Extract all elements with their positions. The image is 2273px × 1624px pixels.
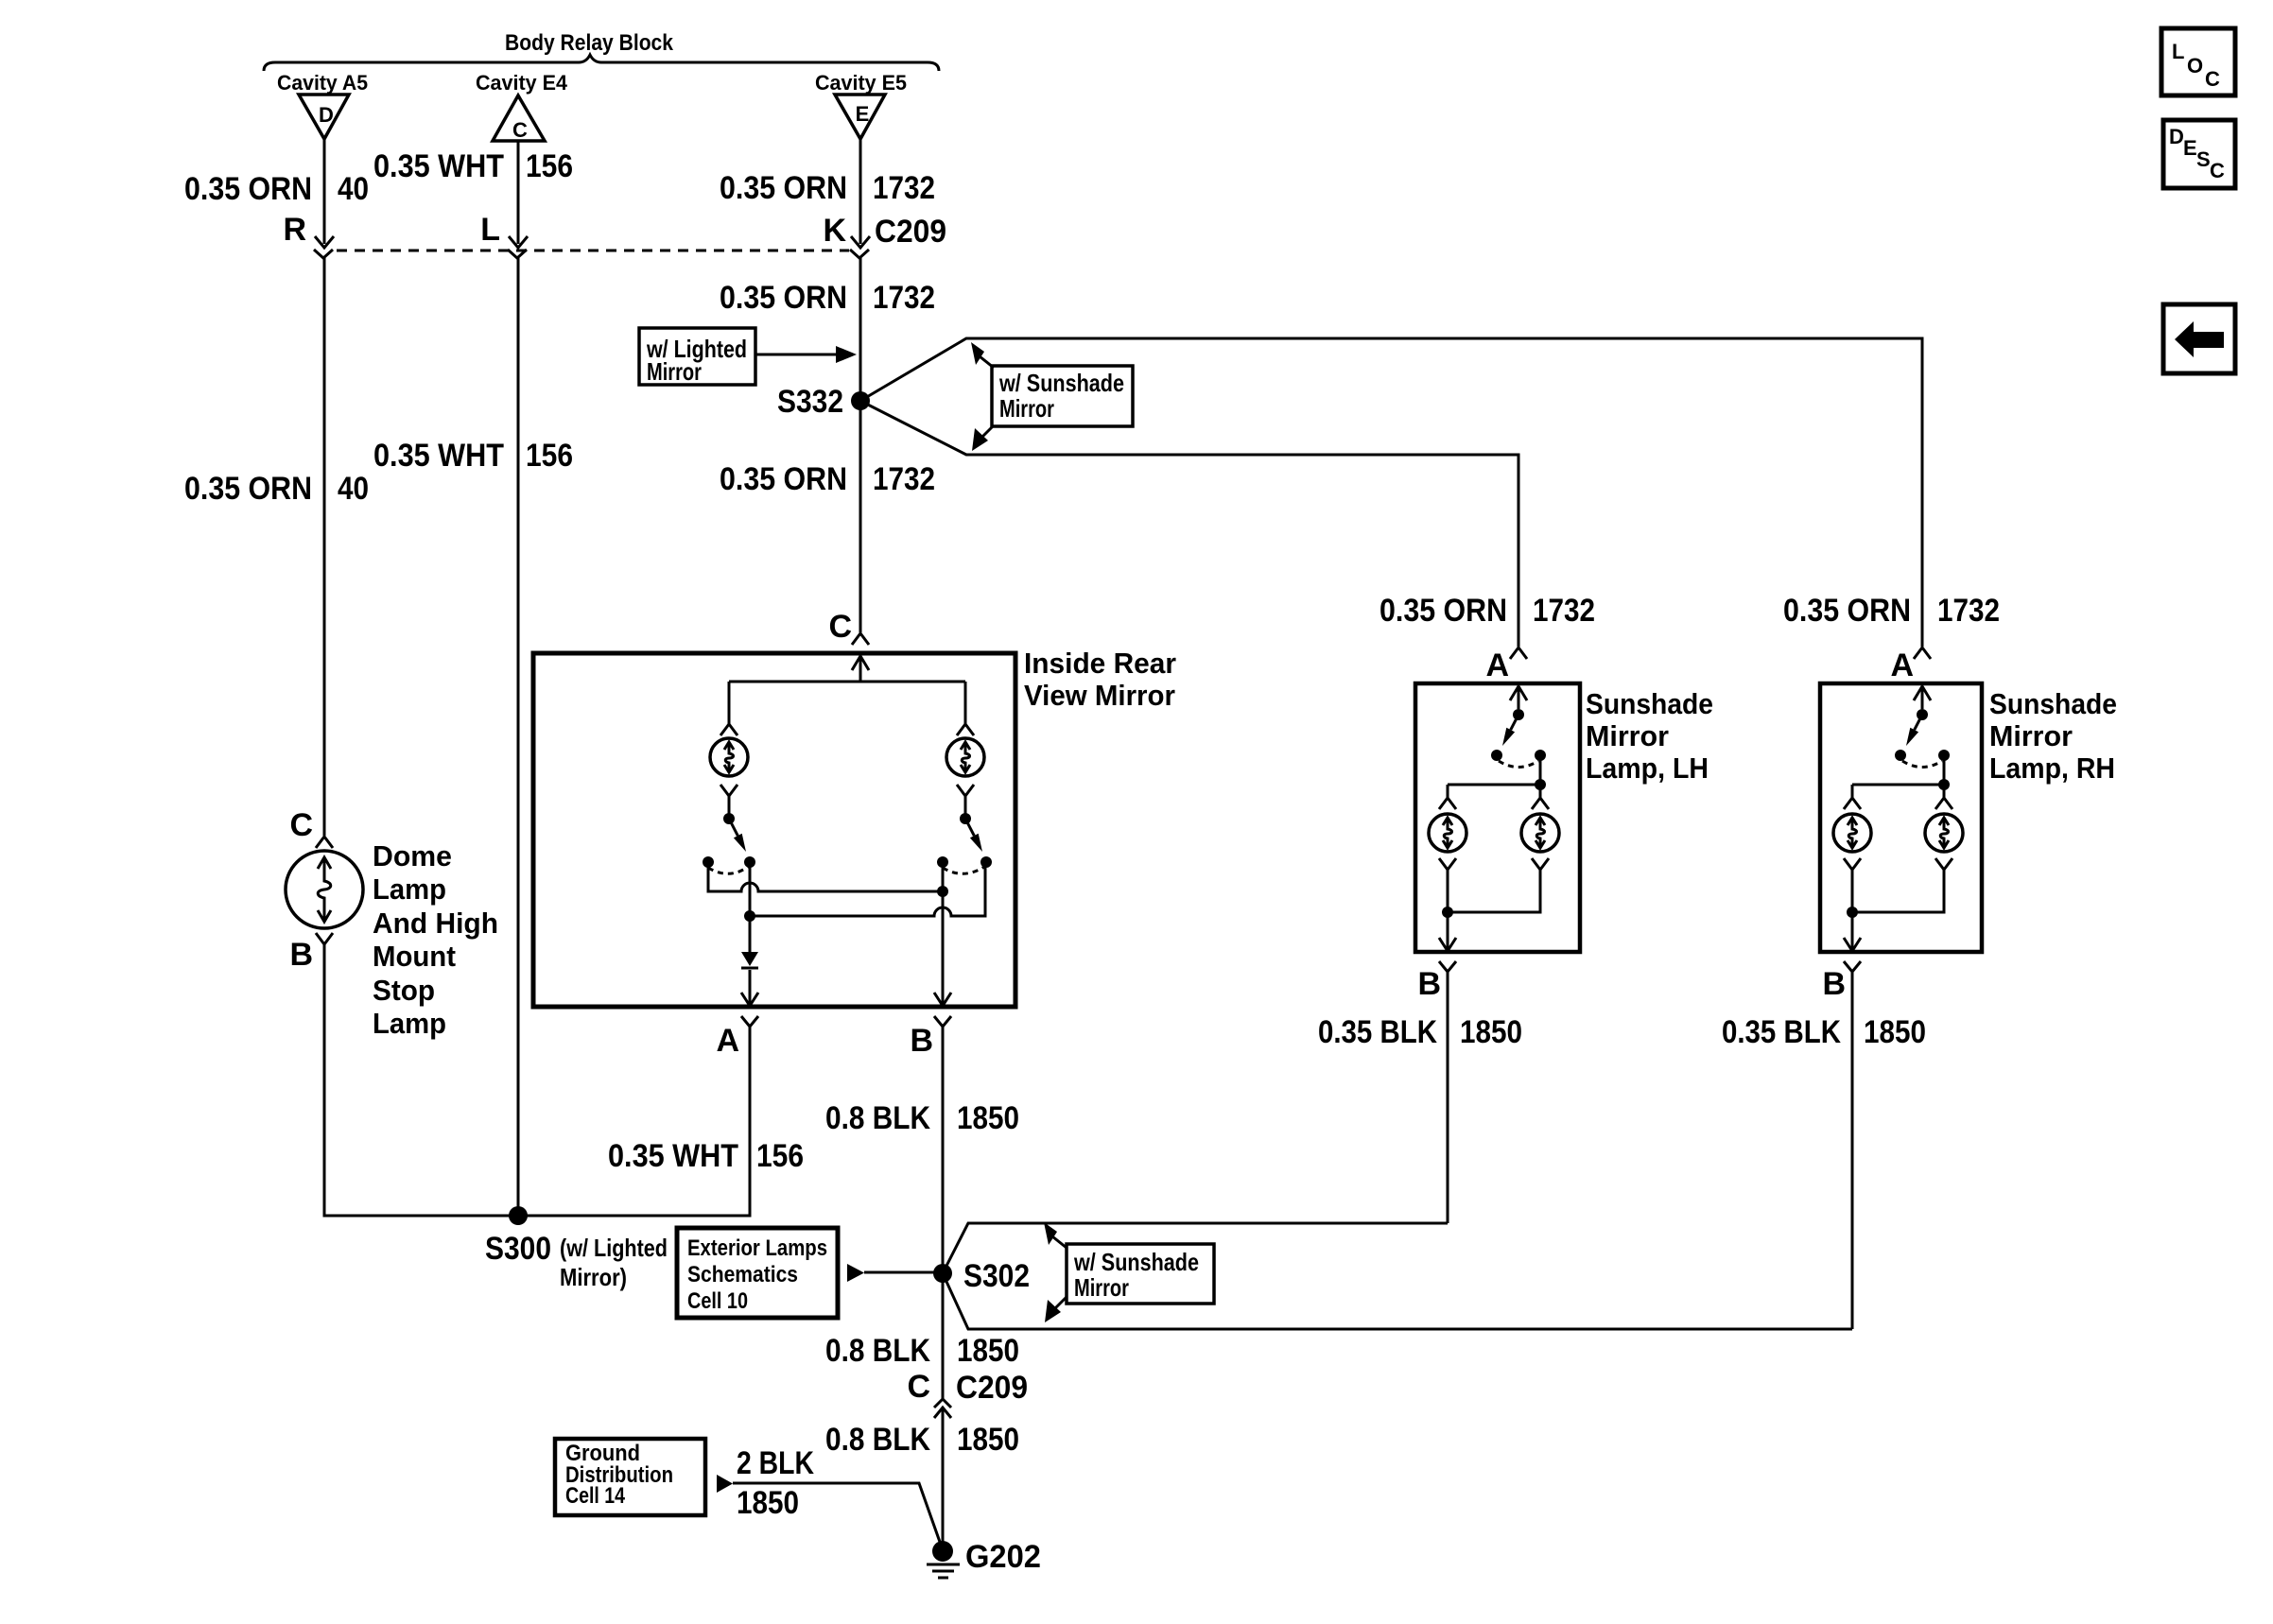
splice S302 junction dot (933, 1264, 952, 1283)
svg-text:1732: 1732 (873, 461, 935, 497)
Body Relay Block brace (264, 55, 939, 71)
dome lamp top connector chevron (316, 837, 333, 848)
w/ Sunshade Mirror callout box (top) (992, 366, 1133, 426)
mirror right bulb (946, 738, 984, 776)
mirror right switch contacts (937, 856, 948, 868)
RH lamp pin B arrow (1844, 938, 1861, 951)
S332 fork upper diagonal (860, 338, 1922, 647)
mirror right switch dashed arc (943, 867, 984, 873)
wire W3 from S332 down to mirror pin C (859, 401, 862, 632)
svg-text:C: C (2210, 159, 2225, 182)
mirror left switch dashed arc (708, 867, 748, 873)
svg-text:S302: S302 (963, 1258, 1030, 1294)
RH lamp rail junction dot (1938, 779, 1950, 790)
RH lamp rail from right contact (1852, 755, 1944, 785)
arrow into C209 at L (509, 236, 528, 248)
back arrow legend box (2163, 304, 2235, 373)
wire W1 from C209 down to dome lamp C (323, 267, 326, 836)
RH lamp left bulb lower connector (1844, 858, 1861, 886)
wire from dome lamp B down to S300 bus (324, 944, 508, 1216)
svg-text:Body Relay Block: Body Relay Block (505, 30, 674, 56)
svg-text:0.35 ORN: 0.35 ORN (720, 280, 847, 316)
svg-text:View Mirror: View Mirror (1024, 679, 1175, 712)
svg-text:0.8 BLK: 0.8 BLK (825, 1422, 930, 1458)
Sunshade Mirror Lamp RH box (1820, 683, 1982, 952)
w/ Lighted Mirror callout box (639, 328, 755, 386)
svg-text:2 BLK: 2 BLK (737, 1445, 814, 1481)
LH lamp pin A arrow (1510, 686, 1527, 709)
svg-text:G202: G202 (965, 1539, 1041, 1575)
svg-text:0.35 ORN: 0.35 ORN (720, 461, 847, 497)
RH lamp switch contacts (1895, 750, 1906, 761)
wire from triangle E down to C209 (859, 139, 862, 244)
RH lamp switch dashed arc (1902, 761, 1942, 768)
svg-text:Dome: Dome (373, 839, 452, 872)
LH lamp rail junction dot (1535, 779, 1546, 790)
svg-text:(w/ Lighted: (w/ Lighted (560, 1234, 668, 1262)
svg-text:Cavity E5: Cavity E5 (815, 71, 907, 95)
svg-text:0.35 ORN: 0.35 ORN (1783, 593, 1911, 629)
LH lamp left bulb drop (1439, 785, 1456, 809)
svg-text:0.35 ORN: 0.35 ORN (184, 171, 312, 207)
svg-text:S332: S332 (777, 384, 843, 420)
svg-text:Inside Rear: Inside Rear (1024, 647, 1176, 680)
LH lamp rail from right contact (1448, 755, 1540, 785)
LH lamp switch contacts (1491, 750, 1502, 761)
svg-text:w/ Sunshade: w/ Sunshade (1073, 1248, 1199, 1276)
mirror left switch pivot (723, 813, 735, 824)
C209 lower connector chevrons (934, 1399, 951, 1408)
svg-text:156: 156 (526, 438, 573, 474)
S302 fork lower branch to RH lamp (943, 1273, 1852, 1329)
Inside Rear View Mirror box (533, 653, 1015, 1007)
connector chevron below C209 at L (508, 250, 527, 267)
splice S332 junction dot (851, 391, 870, 410)
mirror right switch pivot (960, 813, 971, 824)
RH lamp pin A connector chevron (1914, 648, 1931, 659)
Inside Rear View Mirror label (1024, 647, 1176, 712)
svg-text:C: C (512, 118, 528, 142)
LH lamp switch pivot (1513, 709, 1524, 720)
Sunshade Mirror Lamp RH label (1989, 687, 2117, 785)
S332 fork lower diagonal (860, 401, 1518, 647)
wire from mirror pin A down to S300 bus (508, 1027, 750, 1216)
svg-text:Sunshade: Sunshade (1989, 687, 2117, 720)
svg-text:Mirror): Mirror) (560, 1263, 627, 1291)
mirror pin A connector chevron (741, 1016, 758, 1037)
RH lamp right bulb (1925, 814, 1963, 852)
Ground Distribution Cell 14 box (555, 1439, 705, 1515)
svg-text:Lamp: Lamp (373, 1007, 446, 1040)
svg-text:B: B (1822, 966, 1846, 1002)
svg-text:Mirror: Mirror (1989, 719, 2073, 752)
RH lamp switch pivot (1917, 709, 1928, 720)
LH lamp right bulb (1521, 814, 1559, 852)
svg-text:Mirror: Mirror (999, 394, 1054, 423)
mirror pin C connector chevron (852, 633, 869, 645)
svg-text:B: B (289, 937, 313, 973)
svg-text:Cavity E4: Cavity E4 (476, 71, 568, 95)
svg-text:Mirror: Mirror (647, 357, 702, 386)
LH lamp pin A connector chevron (1510, 648, 1527, 659)
svg-text:0.8 BLK: 0.8 BLK (825, 1333, 930, 1369)
svg-text:B: B (1417, 966, 1441, 1002)
svg-text:S: S (2196, 147, 2211, 171)
mirror right bulb lower connector (957, 785, 974, 814)
svg-text:Sunshade: Sunshade (1586, 687, 1713, 720)
mirror diode (741, 952, 758, 966)
mirror wire from left-right contact down through diode (749, 862, 752, 1005)
svg-text:C209: C209 (875, 214, 946, 250)
RH lamp right bulb lower connector (1935, 858, 1952, 886)
svg-text:1732: 1732 (873, 280, 935, 316)
LOC legend box (2161, 28, 2235, 95)
RH lamp B wire down to S302 branch (1851, 972, 1854, 1329)
svg-text:1732: 1732 (873, 170, 935, 206)
svg-text:Lamp, RH: Lamp, RH (1989, 752, 2115, 785)
svg-text:D: D (2169, 125, 2184, 148)
Sunshade Mirror Lamp LH box (1415, 683, 1580, 952)
svg-text:1850: 1850 (1460, 1014, 1522, 1050)
connector triangle C (Cavity E4) (493, 95, 545, 142)
wire from triangle C down to C209 (517, 141, 520, 244)
connector triangle E (Cavity E5) (835, 95, 885, 139)
svg-text:0.8 BLK: 0.8 BLK (825, 1100, 930, 1136)
svg-text:C: C (828, 609, 852, 645)
S300 note (w/ Lighted Mirror) (560, 1234, 668, 1291)
wire from mirror pin B down to S302 (942, 1027, 945, 1399)
wire W2 from C209 down to S300 (517, 267, 520, 1216)
svg-text:Stop: Stop (373, 974, 435, 1007)
svg-text:D: D (319, 103, 334, 127)
RH lamp exit wire to pin B (1851, 912, 1854, 950)
dome lamp name label (373, 839, 498, 1040)
RH lamp bottom rail (1852, 886, 1944, 912)
RH lamp switch arm (1915, 715, 1922, 730)
svg-text:Mirror: Mirror (1074, 1273, 1129, 1302)
LH lamp pin B connector chevron (1439, 961, 1456, 982)
svg-text:1732: 1732 (1937, 593, 2000, 629)
svg-text:0.35 ORN: 0.35 ORN (1379, 593, 1507, 629)
svg-text:And High: And High (373, 907, 498, 940)
mirror right bulb drop (957, 682, 974, 735)
svg-text:0.35 BLK: 0.35 BLK (1722, 1014, 1841, 1050)
svg-text:1850: 1850 (737, 1485, 799, 1521)
LH lamp switch dashed arc (1499, 761, 1538, 768)
LH lamp exit wire to pin B (1447, 912, 1449, 950)
RH lamp pin A arrow (1914, 686, 1931, 709)
svg-text:156: 156 (526, 148, 573, 184)
mirror rail2 from x793 to right contact (750, 862, 985, 916)
svg-text:0.35 WHT: 0.35 WHT (373, 438, 504, 474)
LH lamp bottom junction dot (1442, 907, 1453, 918)
arrow into C209 at K (851, 236, 870, 248)
w/ Sunshade Mirror callout arrows (bottom) (1044, 1222, 1057, 1245)
connector chevron below C209 at R (314, 250, 333, 267)
svg-text:Lamp: Lamp (373, 872, 446, 906)
LH lamp left bulb (1429, 814, 1466, 852)
mirror rail1 from left contact to B wire (708, 862, 943, 891)
mirror pin B connector chevron (934, 1016, 951, 1037)
svg-text:C: C (289, 807, 313, 843)
LH lamp pin B arrow (1439, 938, 1456, 951)
RH lamp left bulb (1833, 814, 1871, 852)
svg-text:1850: 1850 (957, 1333, 1019, 1369)
C209 dashed connector line (337, 250, 849, 252)
Sunshade Mirror Lamp LH label (1586, 687, 1713, 785)
dome lamp filament (318, 857, 331, 922)
dome lamp pin B connector chevron (316, 933, 333, 954)
svg-text:w/ Sunshade: w/ Sunshade (998, 369, 1124, 397)
RH lamp left bulb drop (1844, 785, 1861, 809)
LH lamp right bulb drop (1532, 785, 1549, 809)
svg-text:Mount: Mount (373, 940, 456, 973)
LH lamp B wire down to S302 branch (1447, 972, 1449, 1223)
svg-text:Cavity A5: Cavity A5 (277, 71, 368, 95)
ground G202 symbol bars (927, 1564, 960, 1578)
mirror left switch arm (729, 819, 737, 836)
svg-text:0.35 WHT: 0.35 WHT (373, 148, 504, 184)
svg-text:Lamp, LH: Lamp, LH (1586, 752, 1709, 785)
svg-text:Cell 14: Cell 14 (565, 1483, 626, 1509)
svg-text:A: A (1485, 648, 1509, 683)
svg-text:E: E (2183, 136, 2197, 160)
svg-text:Cell 10: Cell 10 (687, 1288, 748, 1314)
svg-text:L: L (480, 212, 500, 248)
mirror right switch arm (965, 819, 974, 836)
svg-text:0.35 ORN: 0.35 ORN (184, 471, 312, 507)
arrow from w/ Lighted Mirror box to wire (755, 354, 836, 356)
LH lamp left bulb lower connector (1439, 858, 1456, 886)
mirror wire from right-left contact down to pin B (942, 862, 945, 1005)
svg-text:S300: S300 (485, 1231, 551, 1267)
svg-text:156: 156 (756, 1138, 804, 1174)
svg-text:C: C (2205, 67, 2220, 91)
svg-text:1850: 1850 (1864, 1014, 1926, 1050)
mirror internal top rail (729, 656, 965, 682)
svg-text:0.35 BLK: 0.35 BLK (1318, 1014, 1437, 1050)
svg-text:1732: 1732 (1533, 593, 1595, 629)
svg-text:0.35 WHT: 0.35 WHT (608, 1138, 738, 1174)
svg-text:R: R (283, 212, 306, 248)
svg-text:C: C (907, 1369, 930, 1405)
w/ Sunshade Mirror callout arrows (top) (971, 342, 984, 365)
connector triangle D (Cavity A5) (299, 95, 349, 139)
arrow from Ground Distribution box (717, 1475, 733, 1493)
mirror pin A arrow (741, 993, 758, 1006)
mirror left switch contacts (703, 856, 714, 868)
svg-text:E: E (856, 102, 870, 126)
svg-text:40: 40 (338, 171, 369, 207)
dome lamp circle (286, 851, 363, 928)
connector chevron below C209 at K (850, 250, 869, 267)
mirror rail2 junction dot (744, 910, 755, 922)
wire from C209 down to G202 (942, 1408, 945, 1551)
svg-text:1850: 1850 (957, 1422, 1019, 1458)
svg-text:Exterior Lamps: Exterior Lamps (687, 1235, 827, 1261)
svg-text:A: A (1890, 648, 1914, 683)
arrow from Exterior Lamps box to S302 (847, 1264, 864, 1282)
DESC legend box (2163, 120, 2235, 188)
svg-text:1850: 1850 (957, 1100, 1019, 1136)
LH lamp bottom rail (1448, 886, 1540, 912)
RH lamp pin B connector chevron (1844, 961, 1861, 982)
wire W3 from C209 down to S332 (859, 267, 862, 401)
mirror left bulb (710, 738, 748, 776)
svg-text:B: B (910, 1023, 933, 1059)
RH lamp right bulb drop (1935, 785, 1952, 809)
mirror pin B arrow (934, 993, 951, 1006)
svg-text:40: 40 (338, 471, 369, 507)
mirror left bulb lower connector (720, 785, 737, 814)
w/ Sunshade Mirror callout box (bottom) (1067, 1244, 1214, 1304)
svg-text:0.35 ORN: 0.35 ORN (720, 170, 847, 206)
ground G202 dot (932, 1541, 953, 1562)
wire from triangle D down to C209 (323, 139, 326, 244)
S302 fork upper branch to LH lamp (943, 1223, 1448, 1273)
LH lamp right bulb lower connector (1532, 858, 1549, 886)
Exterior Lamps Schematics Cell 10 box (677, 1228, 838, 1318)
LH lamp switch arm (1511, 715, 1518, 730)
svg-text:K: K (823, 213, 846, 249)
splice S300 junction dot (509, 1206, 528, 1225)
mirror left bulb drop (720, 682, 737, 735)
svg-text:C209: C209 (956, 1370, 1028, 1406)
svg-text:L: L (2172, 40, 2184, 63)
arrow into C209 at R (315, 236, 334, 248)
svg-text:Mirror: Mirror (1586, 719, 1669, 752)
svg-text:O: O (2187, 54, 2203, 78)
RH lamp bottom junction dot (1847, 907, 1858, 918)
mirror rail1 junction dot (937, 886, 948, 897)
mirror pin C arrow (852, 656, 869, 670)
svg-text:A: A (716, 1023, 739, 1059)
svg-text:Schematics: Schematics (687, 1262, 798, 1287)
